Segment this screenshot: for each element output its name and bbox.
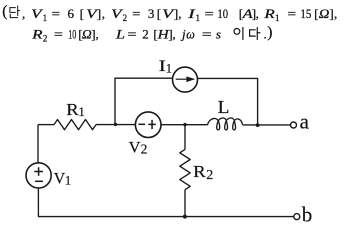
svg-text:): ) — [267, 24, 272, 41]
svg-text:,: , — [173, 27, 176, 42]
svg-text:b: b — [302, 203, 313, 226]
svg-text:15: 15 — [300, 6, 311, 21]
svg-text:=: = — [52, 6, 60, 21]
svg-text:1: 1 — [275, 13, 280, 23]
svg-text:s: s — [216, 27, 221, 42]
svg-text:10: 10 — [68, 27, 76, 42]
svg-text:=: = — [132, 6, 140, 21]
svg-text:=: = — [127, 27, 136, 42]
svg-text:6: 6 — [68, 6, 75, 21]
svg-text:,: , — [178, 6, 181, 21]
svg-text:(: ( — [2, 3, 7, 20]
svg-text:2: 2 — [206, 168, 213, 183]
svg-text:R: R — [66, 100, 79, 119]
svg-text:2: 2 — [141, 142, 148, 157]
svg-text:10: 10 — [217, 6, 228, 21]
svg-text:[: [ — [157, 6, 161, 21]
svg-text:L: L — [115, 27, 125, 42]
svg-text:2: 2 — [123, 13, 128, 23]
svg-text:I: I — [187, 6, 196, 21]
svg-text:R: R — [193, 162, 206, 181]
svg-text:H: H — [156, 27, 169, 42]
svg-text:V: V — [129, 139, 142, 156]
svg-text:2: 2 — [43, 34, 48, 44]
svg-text:1: 1 — [166, 61, 172, 75]
svg-text:,: , — [334, 6, 337, 21]
svg-text:[: [ — [80, 6, 84, 21]
svg-text:Ω: Ω — [82, 27, 92, 42]
svg-text:R: R — [31, 27, 43, 42]
svg-text:L: L — [218, 97, 230, 117]
svg-text:1: 1 — [196, 13, 201, 23]
svg-text:R: R — [263, 6, 275, 21]
svg-text:=: = — [54, 27, 63, 42]
svg-text:a: a — [300, 110, 310, 134]
svg-text:,: , — [256, 6, 259, 21]
svg-text:1: 1 — [43, 13, 48, 23]
svg-text:=: = — [202, 27, 212, 42]
svg-text:2: 2 — [142, 27, 149, 42]
svg-text:[: [ — [314, 6, 318, 21]
svg-text:3: 3 — [148, 6, 155, 21]
svg-text:]: ] — [97, 6, 101, 21]
svg-text:,: , — [102, 6, 105, 21]
svg-text:,: , — [96, 27, 99, 42]
svg-text:=: = — [205, 6, 214, 21]
svg-text:1: 1 — [65, 174, 71, 188]
svg-text:ω: ω — [186, 27, 195, 42]
svg-text:=: = — [288, 6, 297, 21]
svg-text:1: 1 — [78, 104, 85, 119]
svg-text:,: , — [22, 6, 25, 21]
svg-text:Ω: Ω — [319, 6, 330, 21]
